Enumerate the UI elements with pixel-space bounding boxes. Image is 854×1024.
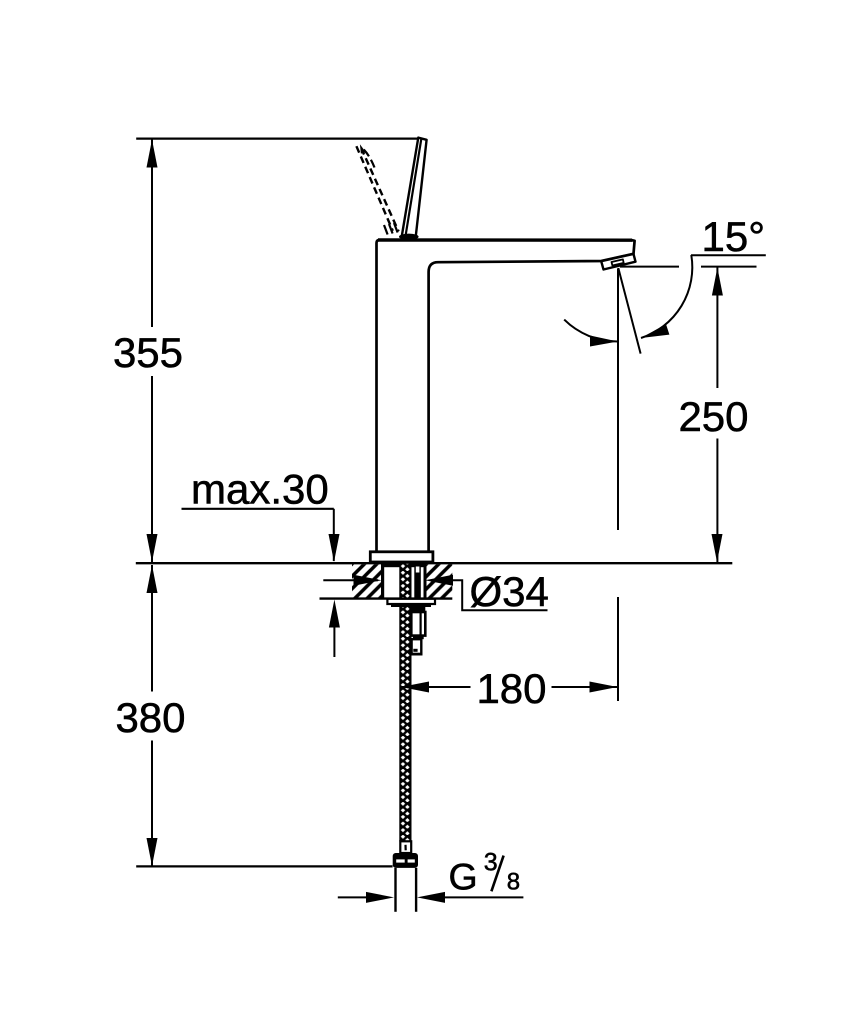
counter slab hatching right: [425, 564, 452, 599]
label 180: [476, 665, 546, 712]
washer under counter: [387, 599, 435, 607]
svg-text:3: 3: [484, 848, 498, 876]
label 15°: [702, 213, 766, 260]
svg-text:max.30: max.30: [191, 466, 329, 513]
dimension Ø34 arrows and leader: [323, 575, 547, 611]
counter reference line: [136, 562, 733, 564]
svg-text:8: 8: [507, 868, 520, 895]
svg-text:355: 355: [113, 329, 183, 376]
angle arc right (from 15° label): [641, 255, 692, 338]
dimension line 380: [147, 565, 158, 866]
label max.30: [191, 466, 329, 513]
label Ø34: [470, 568, 549, 615]
counter slab hatching left: [352, 564, 383, 599]
15 degree underline: [691, 254, 766, 256]
spout reference vertical line: [617, 269, 619, 702]
dimension G3/8: [338, 892, 524, 903]
lever rotation arrow: [360, 144, 375, 167]
spout aerator: [601, 254, 635, 270]
svg-text:180: 180: [476, 665, 546, 712]
label G 3/8: [449, 848, 521, 897]
check valve fitting: [411, 607, 426, 654]
braided flex hose: [399, 564, 411, 842]
svg-text:Ø34: Ø34: [470, 568, 549, 615]
dimension 250: [712, 268, 723, 563]
counter slab bottom line: [320, 597, 453, 599]
dimension max.30 leader and arrows: [182, 509, 340, 657]
G3/8 threaded tube: [396, 868, 417, 912]
angle arc left: [564, 320, 618, 347]
label 250: [678, 393, 748, 440]
lever handle (dashed alternate position): [356, 146, 398, 234]
hose end nut: [393, 853, 418, 868]
aerator level extension line: [620, 266, 757, 268]
faucet body outline: [377, 240, 635, 552]
dimension 180: [401, 682, 618, 693]
extension line bottom (380 lower reference): [136, 865, 392, 867]
label 355: [113, 329, 183, 376]
label 380: [115, 694, 185, 741]
hose crimp ferrule: [400, 841, 411, 853]
spray angle slant line: [618, 268, 640, 354]
mounting rod right of hose: [414, 564, 421, 599]
lever handle (solid position): [399, 138, 427, 240]
base plate: [370, 552, 433, 562]
svg-text:G: G: [449, 855, 478, 897]
dimension line 355: [147, 140, 158, 563]
svg-text:250: 250: [678, 393, 748, 440]
svg-text:15°: 15°: [702, 213, 766, 260]
extension line top (355 upper reference): [136, 138, 419, 140]
hole top shadow under base plate: [383, 564, 424, 567]
svg-text:380: 380: [115, 694, 185, 741]
